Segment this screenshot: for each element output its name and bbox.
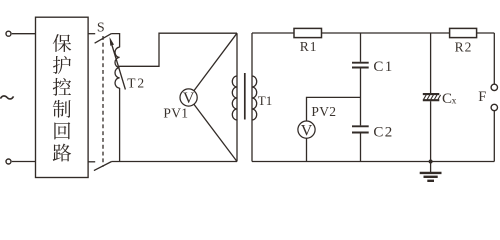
- T1 secondary rail: [251, 33, 253, 162]
- junction dot: [429, 160, 433, 164]
- wire box to lower switch: [88, 161, 95, 163]
- box text char 回: [54, 122, 70, 139]
- T1 core: [244, 73, 246, 120]
- Cx top stub: [430, 33, 432, 93]
- PV2 bottom stub: [306, 138, 308, 161]
- svg-text:T2: T2: [127, 75, 146, 90]
- right rail upper: [493, 33, 495, 84]
- top wire R1 to R2: [322, 32, 450, 34]
- svg-text:C1: C1: [373, 59, 393, 75]
- gap terminal lower: [491, 104, 497, 110]
- secondary top wire left: [252, 32, 294, 34]
- voltmeter PV1: [180, 89, 197, 106]
- switch blade (lower): [94, 162, 112, 171]
- regulator top diagonal: [194, 33, 237, 90]
- input terminal bottom: [6, 159, 11, 164]
- gap terminal upper: [491, 84, 497, 90]
- voltmeter PV2: [298, 121, 315, 138]
- resistor R2: [450, 28, 477, 37]
- box text char 路: [53, 144, 71, 162]
- svg-text:x: x: [452, 96, 457, 106]
- box text char 护: [53, 56, 71, 74]
- capacitor C1: [352, 62, 369, 64]
- box text char 控: [53, 78, 71, 96]
- C1 top stub: [360, 33, 362, 62]
- box text char 保: [53, 34, 71, 52]
- Cx bottom stub: [430, 101, 432, 161]
- svg-text:R2: R2: [455, 39, 473, 54]
- AC source symbol ~: [0, 96, 13, 99]
- capacitor Cx (test object): [423, 93, 440, 95]
- wire step to T2 top: [111, 34, 119, 48]
- wire: [12, 33, 36, 35]
- wire box to switch: [88, 33, 95, 35]
- svg-text:C: C: [442, 91, 452, 107]
- svg-text:V: V: [301, 122, 313, 139]
- resistor R1: [294, 28, 322, 37]
- C1-C2 middle wire: [360, 68, 362, 125]
- svg-text:PV1: PV1: [163, 105, 188, 120]
- capacitor C2: [352, 125, 369, 127]
- wire: [12, 161, 36, 163]
- wiper output wire: [118, 33, 237, 66]
- box text char 制: [53, 100, 71, 118]
- protection/control box: [36, 17, 89, 177]
- T2 wiper arrow: [111, 41, 126, 90]
- regulator bottom diagonal: [194, 104, 237, 161]
- svg-text:F: F: [478, 89, 486, 105]
- T1 secondary winding: [252, 76, 257, 120]
- switch S blade (upper): [95, 34, 112, 44]
- secondary bottom wire: [252, 161, 494, 163]
- svg-text:T1: T1: [258, 93, 272, 108]
- ground: [430, 162, 432, 173]
- svg-text:PV2: PV2: [311, 104, 336, 119]
- T2 winding: [115, 47, 120, 88]
- input terminal top: [6, 31, 11, 36]
- switch interlock dashed line: [102, 36, 104, 167]
- T2 bottom wire: [119, 88, 121, 162]
- PV2 top wire: [307, 97, 361, 121]
- svg-text:C2: C2: [373, 124, 393, 140]
- svg-text:S: S: [97, 20, 105, 35]
- C2 bottom stub: [360, 133, 362, 161]
- svg-text:R1: R1: [300, 39, 318, 54]
- top wire R2 to corner: [477, 32, 495, 34]
- regulator right side / T1 primary feed: [236, 33, 238, 161]
- right rail lower: [493, 111, 495, 162]
- T1 primary winding: [232, 76, 237, 120]
- primary bottom wire: [112, 161, 237, 163]
